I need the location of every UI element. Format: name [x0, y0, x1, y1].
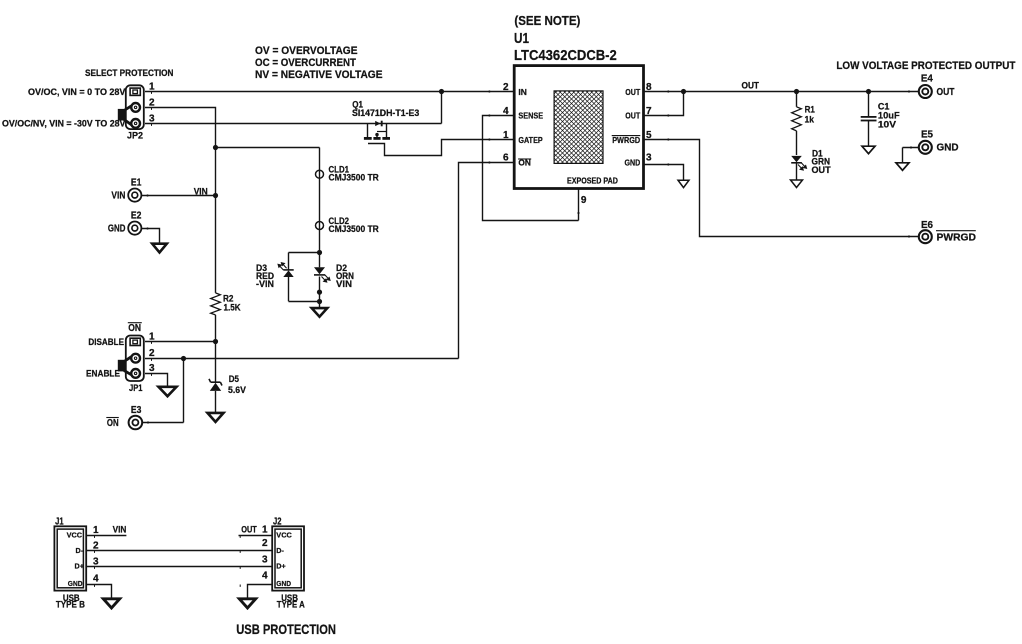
svg-text:EXPOSED PAD: EXPOSED PAD	[567, 176, 618, 186]
svg-text:CMJ3500 TR: CMJ3500 TR	[329, 173, 380, 183]
svg-text:7: 7	[646, 106, 652, 117]
svg-text:OUT: OUT	[937, 87, 955, 98]
svg-text:E2: E2	[131, 211, 142, 222]
svg-text:U1: U1	[514, 30, 529, 47]
svg-text:OV/OC, VIN = 0 TO 28V: OV/OC, VIN = 0 TO 28V	[28, 87, 126, 98]
svg-text:5: 5	[646, 130, 652, 141]
svg-text:2: 2	[149, 348, 155, 359]
svg-text:2: 2	[262, 538, 268, 549]
svg-text:ON: ON	[128, 323, 141, 334]
svg-text:TYPE B: TYPE B	[56, 600, 85, 610]
svg-text:(SEE NOTE): (SEE NOTE)	[514, 13, 580, 28]
svg-text:3: 3	[646, 153, 652, 164]
svg-text:8: 8	[646, 82, 652, 93]
svg-text:2: 2	[93, 541, 99, 552]
svg-text:6: 6	[503, 153, 509, 164]
svg-text:SELECT PROTECTION: SELECT PROTECTION	[85, 68, 174, 79]
svg-text:OUT: OUT	[812, 165, 831, 175]
svg-text:1.5K: 1.5K	[224, 303, 241, 313]
svg-text:9: 9	[581, 195, 587, 206]
svg-text:2: 2	[149, 97, 155, 108]
svg-text:ENABLE: ENABLE	[86, 369, 120, 380]
svg-text:OUT: OUT	[742, 81, 760, 91]
svg-text:1: 1	[149, 81, 155, 92]
svg-text:D5: D5	[229, 374, 239, 384]
svg-text:VCC: VCC	[67, 531, 83, 540]
svg-text:1k: 1k	[805, 115, 815, 125]
svg-text:USB PROTECTION: USB PROTECTION	[236, 621, 336, 637]
svg-text:VIN: VIN	[113, 525, 127, 535]
svg-text:1: 1	[503, 130, 509, 141]
svg-text:OV = OVERVOLTAGE: OV = OVERVOLTAGE	[255, 45, 358, 57]
svg-text:4: 4	[262, 571, 268, 582]
svg-text:LTC4362CDCB-2: LTC4362CDCB-2	[514, 47, 617, 64]
svg-text:JP1: JP1	[129, 383, 143, 394]
svg-text:3: 3	[93, 556, 99, 567]
svg-text:-VIN: -VIN	[256, 279, 274, 289]
svg-text:SENSE: SENSE	[518, 111, 543, 121]
svg-text:E5: E5	[921, 130, 933, 141]
svg-text:VIN: VIN	[111, 190, 125, 201]
svg-text:J2: J2	[273, 517, 282, 528]
svg-text:SI1471DH-T1-E3: SI1471DH-T1-E3	[352, 108, 419, 118]
svg-text:CMJ3500 TR: CMJ3500 TR	[329, 224, 380, 234]
svg-text:VIN: VIN	[194, 187, 208, 197]
svg-text:GND: GND	[108, 223, 126, 234]
svg-text:2: 2	[503, 82, 509, 93]
svg-text:D-: D-	[76, 546, 84, 555]
svg-text:OUT: OUT	[625, 87, 641, 97]
svg-text:GND: GND	[276, 579, 291, 588]
svg-text:GATEP: GATEP	[518, 135, 543, 145]
svg-text:JP2: JP2	[127, 130, 143, 141]
svg-text:5.6V: 5.6V	[228, 385, 247, 395]
svg-text:1: 1	[149, 332, 155, 343]
svg-text:PWRGD: PWRGD	[612, 135, 640, 145]
svg-text:GND: GND	[937, 143, 959, 154]
svg-text:1: 1	[262, 525, 268, 536]
svg-text:GND: GND	[625, 158, 641, 168]
svg-text:4: 4	[503, 106, 509, 117]
svg-text:R1: R1	[805, 105, 815, 115]
svg-text:D+: D+	[276, 562, 285, 571]
svg-text:OV/OC/NV, VIN = -30V TO 28V: OV/OC/NV, VIN = -30V TO 28V	[2, 118, 126, 129]
svg-text:D+: D+	[75, 562, 84, 571]
svg-text:TYPE A: TYPE A	[277, 600, 305, 610]
svg-text:E6: E6	[921, 220, 933, 231]
svg-text:DISABLE: DISABLE	[88, 337, 124, 348]
svg-text:VCC: VCC	[276, 531, 292, 540]
svg-text:3: 3	[262, 555, 268, 566]
svg-text:IN: IN	[518, 87, 527, 97]
svg-text:D-: D-	[276, 546, 284, 555]
svg-text:E4: E4	[921, 74, 933, 85]
svg-text:NV = NEGATIVE VOLTAGE: NV = NEGATIVE VOLTAGE	[255, 69, 383, 81]
svg-text:OUT: OUT	[625, 111, 641, 121]
svg-text:E3: E3	[131, 405, 142, 416]
svg-text:PWRGD: PWRGD	[937, 233, 977, 244]
svg-text:OUT: OUT	[241, 525, 257, 535]
svg-text:10V: 10V	[878, 120, 897, 130]
svg-text:E1: E1	[131, 178, 142, 189]
svg-text:3: 3	[149, 363, 155, 374]
svg-text:VIN: VIN	[336, 279, 352, 289]
svg-text:4: 4	[93, 573, 99, 584]
svg-text:OC = OVERCURRENT: OC = OVERCURRENT	[255, 57, 356, 69]
svg-text:LOW VOLTAGE PROTECTED OUTPUT: LOW VOLTAGE PROTECTED OUTPUT	[836, 60, 1015, 72]
svg-text:1: 1	[93, 525, 99, 536]
svg-text:J1: J1	[55, 517, 64, 528]
svg-text:GND: GND	[68, 579, 83, 588]
svg-text:ON: ON	[107, 418, 119, 429]
svg-text:3: 3	[149, 113, 155, 124]
